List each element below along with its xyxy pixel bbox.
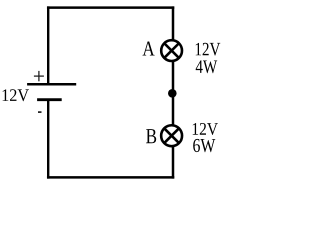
lamp B value 12V xyxy=(193,123,218,135)
lamp A value 4W xyxy=(196,60,218,73)
wire bottom xyxy=(47,176,174,179)
lamp A symbol xyxy=(161,40,182,61)
battery value label 12V xyxy=(3,89,29,101)
wire right upper (top to lamp A) xyxy=(172,6,175,40)
battery plus sign xyxy=(34,71,44,81)
battery minus sign xyxy=(38,111,42,113)
battery 12V negative plate xyxy=(37,98,62,101)
battery 12V positive plate xyxy=(27,83,76,86)
lamp A label A xyxy=(143,42,155,56)
lamp B value 6W xyxy=(193,139,215,152)
wire left upper (top to battery +) xyxy=(47,6,49,85)
wire between lamp A and junction xyxy=(172,61,175,94)
wire right lower (lamp B to bottom) xyxy=(172,146,175,179)
lamp A value 12V xyxy=(196,43,221,56)
wire top xyxy=(47,6,174,9)
junction node dot xyxy=(168,89,177,98)
wire left lower (battery - to bottom) xyxy=(47,99,49,179)
lamp B symbol xyxy=(161,125,182,146)
wire between junction and lamp B xyxy=(172,93,175,126)
lamp B label B xyxy=(146,129,156,143)
